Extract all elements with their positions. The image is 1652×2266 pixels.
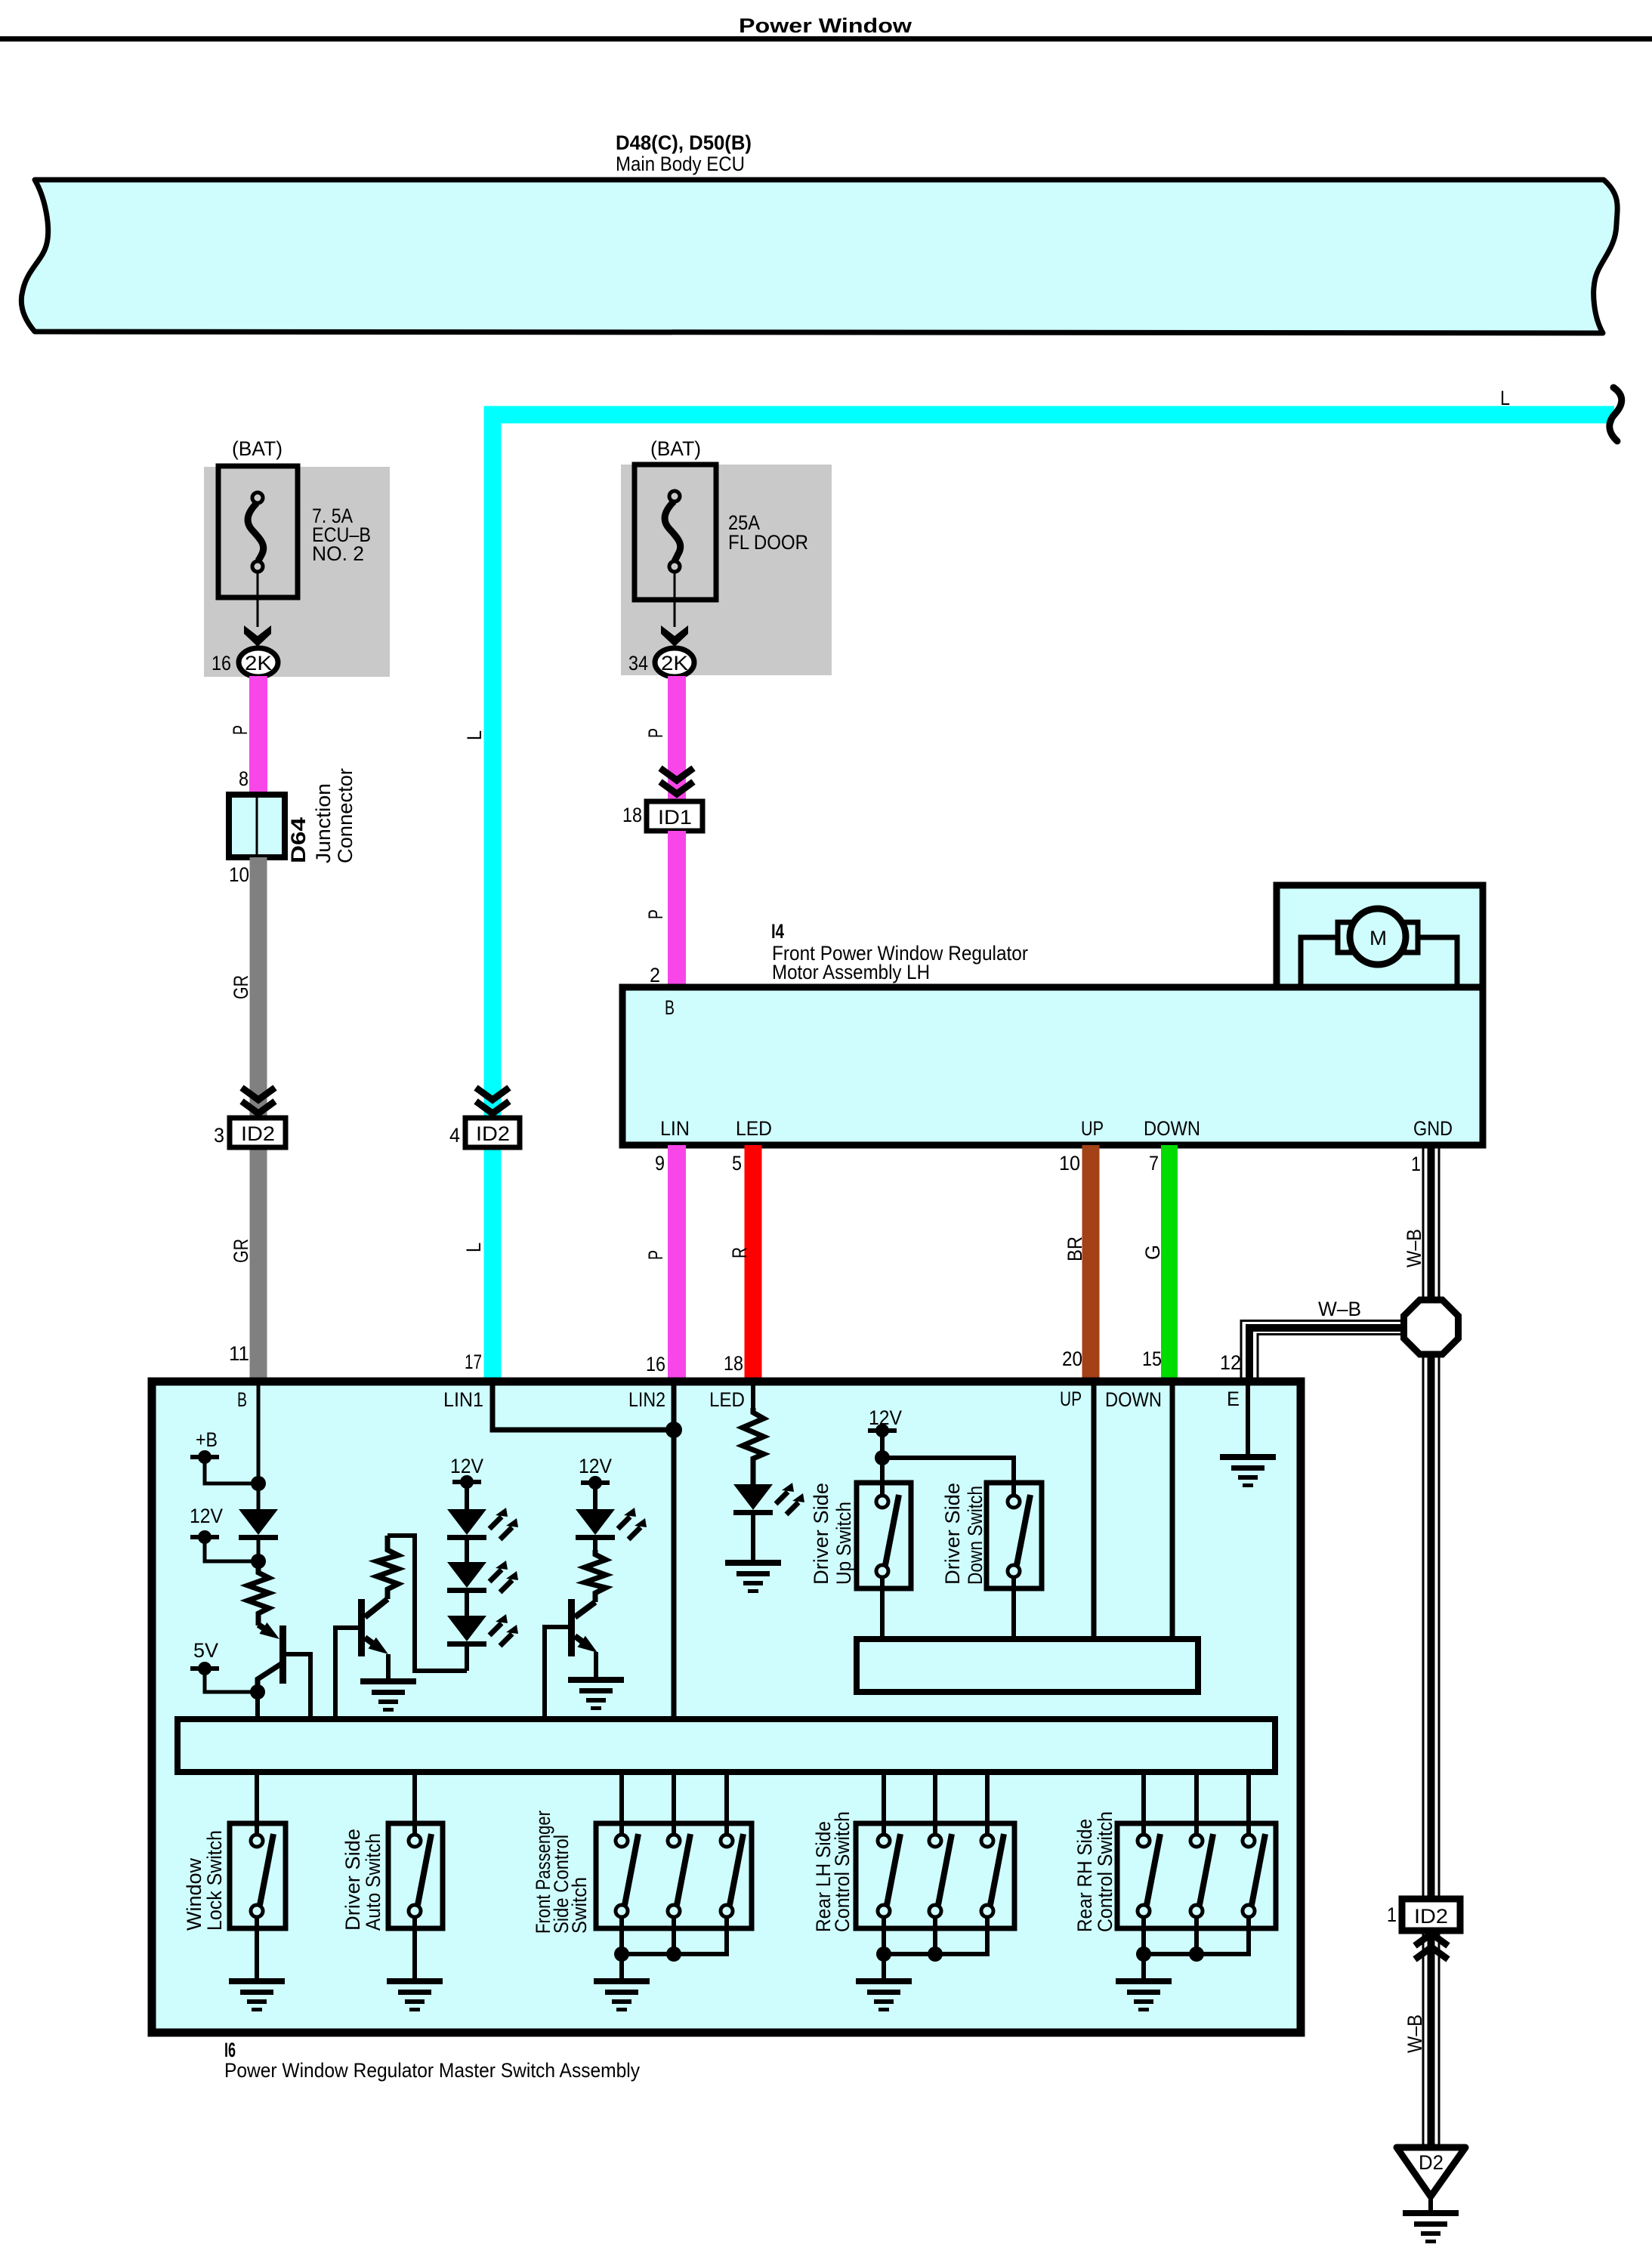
svg-text:3: 3 xyxy=(214,1124,224,1147)
svg-text:D48(C), D50(B): D48(C), D50(B) xyxy=(616,131,752,154)
ground for window lock switch xyxy=(229,1978,285,2011)
svg-text:12V: 12V xyxy=(579,1455,612,1477)
pin 18 xyxy=(622,804,642,826)
I4 Front Power Window Regulator Motor Assembly LH box xyxy=(622,987,1483,1145)
svg-text:W–B: W–B xyxy=(1403,1229,1425,1267)
svg-text:7: 7 xyxy=(1149,1152,1159,1175)
label: Rear LH Side Control Switch xyxy=(812,1811,854,1932)
svg-text:I4: I4 xyxy=(771,920,784,943)
arrow into 2K connector 1 xyxy=(244,625,271,647)
pin 10 xyxy=(229,863,249,886)
arrow into ID1 pin 18 xyxy=(660,768,693,794)
svg-text:NO. 2: NO. 2 xyxy=(312,542,364,565)
pin 1 xyxy=(1411,1153,1421,1175)
svg-text:DOWN: DOWN xyxy=(1144,1117,1200,1140)
svg-text:Rear RH Side: Rear RH Side xyxy=(1073,1819,1096,1932)
svg-text:Connector: Connector xyxy=(334,768,357,863)
svg-text:FL DOOR: FL DOOR xyxy=(728,531,808,554)
svg-text:Driver Side: Driver Side xyxy=(941,1483,964,1585)
transistor Q3 xyxy=(545,1599,601,1719)
svg-text:2: 2 xyxy=(650,964,660,986)
ground for rear LH switch xyxy=(856,1978,912,2011)
pin 5 xyxy=(732,1152,742,1175)
wire: LIN2 internal line to bus xyxy=(672,1385,677,1719)
svg-text:GND: GND xyxy=(1413,1117,1453,1140)
svg-text:+B: +B xyxy=(196,1428,218,1451)
wire: P from 2K-34 to ID1 xyxy=(668,676,686,804)
svg-text:Window: Window xyxy=(183,1858,205,1931)
ground symbol below D2 xyxy=(1403,2210,1459,2243)
svg-text:W–B: W–B xyxy=(1318,1298,1361,1320)
label: L at right end xyxy=(1500,387,1510,409)
driver side auto switch xyxy=(388,1772,443,1978)
LED indicator on LED pin xyxy=(733,1483,804,1560)
terminal 5V xyxy=(190,1639,258,1692)
connector 2K pin 16 xyxy=(239,648,278,677)
wire: W-B branch from octagon to master E pin 12 xyxy=(1241,1321,1403,1382)
svg-text:P: P xyxy=(644,1250,667,1260)
pin 9 xyxy=(655,1152,665,1175)
svg-text:LED: LED xyxy=(736,1117,772,1140)
label: L on vertical cyan wire xyxy=(463,730,486,740)
svg-text:Power Window Regulator Master: Power Window Regulator Master Switch Ass… xyxy=(224,2059,640,2082)
pin 16 lower xyxy=(646,1353,665,1375)
label: I4 Front Power Window Regulator Motor Assembly LH xyxy=(771,920,1028,983)
terminal 12V driver switches xyxy=(868,1406,1014,1502)
svg-text:Main Body ECU: Main Body ECU xyxy=(616,153,745,175)
label: Driver Side Down Switch xyxy=(941,1483,987,1585)
label: I6 Power Window Regulator Master Switch Assembly xyxy=(224,2039,640,2082)
label: P xyxy=(229,725,252,735)
inner switch bus box xyxy=(857,1639,1198,1692)
svg-text:G: G xyxy=(1141,1245,1164,1260)
label: P xyxy=(644,1250,667,1260)
svg-text:Junction: Junction xyxy=(312,783,335,863)
wire: DOWN pin internal line xyxy=(1170,1385,1175,1639)
svg-text:17: 17 xyxy=(465,1351,482,1373)
svg-text:I6: I6 xyxy=(224,2039,236,2061)
label: Window Lock Switch xyxy=(183,1830,226,1931)
pin 16 xyxy=(212,652,231,675)
title rule xyxy=(0,36,1652,42)
arrow up out of ID2 xyxy=(1415,1934,1448,1959)
pin 15 xyxy=(1142,1348,1162,1370)
terminal 12V for indicator LED chain xyxy=(450,1455,483,1509)
wire from fuse 1 to connector xyxy=(257,572,259,627)
ground for Q3 xyxy=(568,1677,624,1710)
label: 7. 5A ECU-B NO. 2 xyxy=(312,505,371,565)
svg-text:LIN1: LIN1 xyxy=(443,1388,483,1411)
svg-text:Driver Side: Driver Side xyxy=(810,1483,832,1585)
connector ID2 pin 1 (lower right) xyxy=(1402,1899,1460,1931)
driver side up switch xyxy=(857,1483,911,1639)
pin 10 lower xyxy=(1059,1152,1080,1175)
fuse 25A FL DOOR symbol xyxy=(635,465,716,600)
master switch box I6 xyxy=(152,1382,1301,2033)
wire from fuse 2 to connector xyxy=(674,572,676,627)
svg-text:Up Switch: Up Switch xyxy=(832,1502,855,1585)
label: P xyxy=(644,728,667,738)
LED 2 of chain xyxy=(447,1561,518,1616)
arrow into 2K connector 2 xyxy=(661,625,688,647)
svg-text:M: M xyxy=(1369,927,1387,949)
label: Rear RH Side Control Switch xyxy=(1073,1811,1116,1932)
rear RH side control switch xyxy=(1117,1772,1276,1978)
svg-text:10: 10 xyxy=(1059,1152,1080,1175)
label: (BAT) xyxy=(650,437,701,460)
svg-text:(BAT): (BAT) xyxy=(650,437,701,460)
node: LIN1 bay link to LIN2 xyxy=(493,1385,682,1438)
title: Power Window xyxy=(739,14,912,37)
continuation squiggle at right end of L wire xyxy=(1610,387,1622,441)
ground for Q2 xyxy=(360,1678,416,1712)
svg-text:P: P xyxy=(644,728,667,738)
label: D64 Junction Connector xyxy=(287,768,357,863)
transistor Q2 xyxy=(335,1599,392,1719)
pin 2 xyxy=(650,964,660,986)
svg-text:D2: D2 xyxy=(1419,2151,1444,2174)
svg-text:R: R xyxy=(728,1247,751,1258)
connector 2K pin 34 xyxy=(655,648,694,677)
svg-text:BR: BR xyxy=(1064,1236,1086,1261)
svg-text:GR: GR xyxy=(230,1239,252,1263)
pin label B inside I4 xyxy=(665,996,675,1019)
pin labels inside I4 bottom xyxy=(660,1117,1453,1140)
label: Driver Side Auto Switch xyxy=(341,1829,384,1931)
label: (BAT) xyxy=(232,437,283,460)
pin 3 xyxy=(214,1124,224,1147)
ground for E pin xyxy=(1220,1454,1276,1487)
svg-text:5: 5 xyxy=(732,1152,742,1175)
svg-text:W–B: W–B xyxy=(1403,2014,1426,2053)
svg-text:4: 4 xyxy=(449,1124,460,1147)
label: W-B bottom xyxy=(1403,2014,1426,2053)
svg-text:12V: 12V xyxy=(450,1455,483,1477)
window lock switch xyxy=(230,1772,286,1978)
svg-text:8: 8 xyxy=(239,767,249,790)
ground for rear RH switch xyxy=(1116,1978,1172,2011)
resistor R2 at Q2 collector xyxy=(377,1536,398,1599)
svg-text:1: 1 xyxy=(1387,1903,1397,1926)
svg-text:16: 16 xyxy=(646,1353,665,1375)
svg-text:ID2: ID2 xyxy=(476,1122,510,1145)
pin 7 xyxy=(1149,1152,1159,1175)
svg-text:20: 20 xyxy=(1062,1348,1082,1370)
connector ID2 pin 3 xyxy=(230,1118,286,1147)
wire: P from ID1 to motor pin 2 xyxy=(668,831,686,987)
svg-text:5V: 5V xyxy=(193,1639,218,1662)
transistor Q1 xyxy=(250,1613,310,1719)
wire: P from 2K-16 to D64 xyxy=(249,676,267,798)
wire: GR from D64 to master switch pin 11 xyxy=(250,857,267,1382)
svg-text:E: E xyxy=(1227,1388,1240,1410)
svg-text:UP: UP xyxy=(1060,1388,1082,1410)
label: L lower xyxy=(462,1243,485,1252)
wire below D2 xyxy=(1428,2197,1433,2210)
svg-text:DOWN: DOWN xyxy=(1105,1388,1162,1411)
svg-text:Motor Assembly LH: Motor Assembly LH xyxy=(772,961,930,983)
ground point D2 triangle xyxy=(1397,2147,1465,2197)
Main Body ECU box (torn-edge band) xyxy=(21,180,1617,333)
svg-text:B: B xyxy=(665,996,675,1019)
connector ID1 pin 18 xyxy=(647,801,702,831)
pin 8 xyxy=(239,767,249,790)
front passenger side control switch xyxy=(596,1772,752,1978)
fuse block 2 gray background xyxy=(621,465,832,675)
diode D in B chain xyxy=(239,1483,278,1569)
wire: E pin ground line xyxy=(1246,1385,1250,1454)
junction connector D64 xyxy=(229,795,285,857)
terminal +B xyxy=(190,1428,258,1483)
arrow into ID2 pin 4 xyxy=(476,1088,509,1113)
svg-text:Power Window: Power Window xyxy=(739,14,912,37)
svg-text:16: 16 xyxy=(212,652,231,675)
svg-text:1: 1 xyxy=(1411,1153,1421,1175)
LED 1 of chain xyxy=(447,1508,518,1562)
wire: W-B GND pin 1 down to octagon and ID2 xyxy=(1423,1145,1439,1903)
svg-text:(BAT): (BAT) xyxy=(232,437,283,460)
label: G xyxy=(1141,1245,1164,1260)
svg-text:GR: GR xyxy=(230,975,252,999)
resistor R1 in B chain xyxy=(248,1561,269,1625)
svg-text:34: 34 xyxy=(628,652,648,675)
pin 34 xyxy=(628,652,648,675)
svg-text:Lock Switch: Lock Switch xyxy=(203,1830,226,1931)
svg-text:ID2: ID2 xyxy=(241,1122,275,1145)
svg-text:P: P xyxy=(229,725,252,735)
terminal 12V left xyxy=(190,1505,258,1561)
fuse block 1 gray background xyxy=(204,467,390,677)
label: W-B horizontal xyxy=(1318,1298,1361,1320)
ground for LED pin xyxy=(725,1560,781,1593)
main internal bus bar xyxy=(178,1719,1275,1772)
svg-text:Driver Side: Driver Side xyxy=(341,1829,364,1931)
label: Driver Side (LED) xyxy=(810,1483,855,1585)
label: 25A FL DOOR xyxy=(728,511,808,554)
wire: G DOWN pin 7 to master DOWN pin 15 xyxy=(1161,1145,1178,1382)
svg-text:18: 18 xyxy=(724,1352,743,1375)
svg-text:L: L xyxy=(1500,387,1510,409)
svg-text:LIN: LIN xyxy=(660,1117,690,1140)
wire: BR UP pin 10 to master UP pin 20 xyxy=(1082,1145,1100,1382)
svg-text:LIN2: LIN2 xyxy=(628,1388,665,1411)
wire: W-B from ID2 to D2 xyxy=(1423,1931,1439,2147)
svg-text:ID2: ID2 xyxy=(1414,1905,1448,1928)
motor brush wire right xyxy=(1407,937,1457,984)
svg-text:Switch: Switch xyxy=(568,1877,591,1934)
pin 4 xyxy=(449,1124,460,1147)
pin 20 xyxy=(1062,1348,1082,1370)
arrow into ID2 pin 3 xyxy=(242,1088,275,1113)
wire: LED pin internal line xyxy=(751,1385,755,1408)
wire: UP pin internal line xyxy=(1092,1385,1097,1639)
svg-text:L: L xyxy=(462,1243,485,1252)
svg-text:11: 11 xyxy=(229,1342,249,1365)
svg-text:D64: D64 xyxy=(287,817,310,863)
resistor R3 at Q3 collector xyxy=(585,1550,606,1602)
label: P xyxy=(644,909,667,919)
svg-text:Auto Switch: Auto Switch xyxy=(362,1833,384,1931)
motor brush wire left xyxy=(1301,937,1349,984)
svg-text:LED: LED xyxy=(709,1388,745,1411)
terminal 12V for LIN2 indicator xyxy=(579,1455,612,1509)
wire: P LIN pin 9 to master LIN2 pin 16 xyxy=(668,1145,686,1382)
wire: R LED pin 5 to master LED pin 18 xyxy=(745,1145,762,1382)
svg-text:Down Switch: Down Switch xyxy=(964,1486,987,1585)
wire: L (cyan) from ECU area: horizontal run and drop to LIN1 xyxy=(493,415,1614,1382)
label: D48(C), D50(B) Main Body ECU xyxy=(616,131,752,175)
svg-text:P: P xyxy=(644,909,667,919)
pin labels inside master box top xyxy=(237,1388,1240,1411)
ground for auto switch xyxy=(387,1978,443,2011)
svg-text:2K: 2K xyxy=(245,652,272,675)
pin 12 xyxy=(1220,1351,1241,1374)
pin 11 xyxy=(229,1342,249,1365)
pin 18 lower xyxy=(724,1352,743,1375)
svg-text:9: 9 xyxy=(655,1152,665,1175)
label: GR lower xyxy=(230,1239,252,1263)
motor housing box xyxy=(1277,885,1483,987)
label: Front Passenger Side Control Switch xyxy=(532,1811,591,1934)
driver side down switch xyxy=(987,1483,1042,1639)
svg-text:B: B xyxy=(237,1388,247,1411)
svg-text:UP: UP xyxy=(1081,1117,1104,1140)
LED at Q3 collector xyxy=(576,1508,647,1550)
resistor R4 on LED pin xyxy=(743,1408,764,1484)
svg-text:ID1: ID1 xyxy=(658,806,692,829)
ground for front passenger switch xyxy=(594,1978,650,2011)
label: GR xyxy=(230,975,252,999)
svg-text:L: L xyxy=(463,730,486,740)
rear LH side control switch xyxy=(856,1772,1014,1978)
svg-text:12V: 12V xyxy=(190,1505,223,1527)
svg-text:Control Switch: Control Switch xyxy=(831,1811,854,1932)
svg-text:15: 15 xyxy=(1142,1348,1162,1370)
svg-text:10: 10 xyxy=(229,863,249,886)
LED 3 of chain xyxy=(447,1614,518,1671)
fuse 7.5A ECU-B NO.2 symbol xyxy=(218,466,298,597)
svg-text:12: 12 xyxy=(1220,1351,1241,1374)
motor M symbol xyxy=(1338,909,1418,965)
label: BR xyxy=(1064,1236,1086,1261)
svg-text:2K: 2K xyxy=(661,652,688,675)
splice octagon xyxy=(1404,1300,1459,1354)
label: R xyxy=(728,1247,751,1258)
pin 17 xyxy=(465,1351,482,1373)
pin 1 lower xyxy=(1387,1903,1397,1926)
wire loop from R2 to LED chain xyxy=(388,1536,467,1671)
connector ID2 pin 4 xyxy=(465,1118,520,1147)
svg-text:Control Switch: Control Switch xyxy=(1094,1811,1116,1932)
svg-text:18: 18 xyxy=(622,804,642,826)
label: W-B vertical xyxy=(1403,1229,1425,1267)
wire: B pin internal line xyxy=(251,1385,266,1491)
